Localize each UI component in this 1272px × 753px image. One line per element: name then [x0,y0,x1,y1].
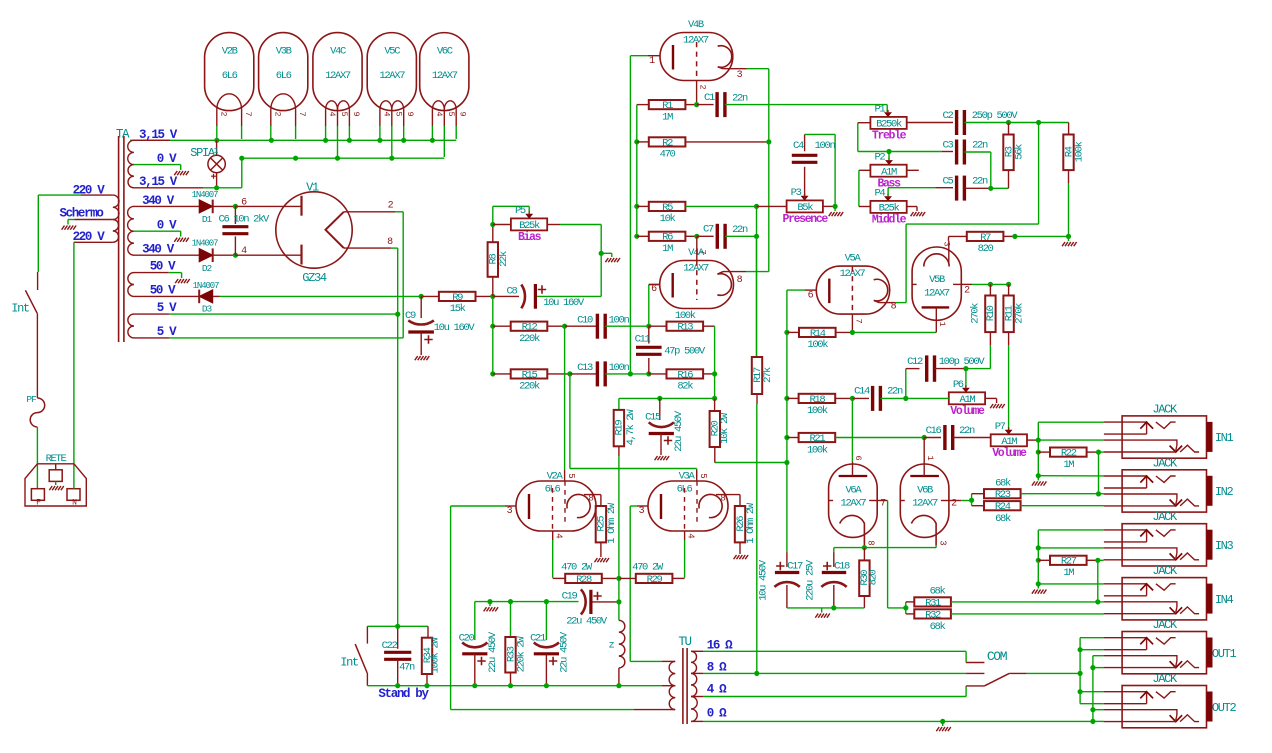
svg-text:Bias: Bias [518,231,542,244]
junction R16 R13 right [712,371,717,376]
svg-text:R23: R23 [995,489,1011,501]
wire presence node vertical [756,206,758,236]
wire TU primary top from V3A plate [630,660,662,662]
junction OUT2 tip [1090,719,1095,724]
junction C13 rail [628,371,633,376]
tube V4A grid [696,261,698,301]
svg-text:27k: 27k [762,367,774,383]
tube V4C heater [326,101,338,110]
junction V4A grid node [646,324,651,329]
svg-text:JACK: JACK [1152,618,1178,632]
svg-text:C1: C1 [704,92,715,104]
ground P3 [829,212,832,216]
svg-text:C8: C8 [507,286,518,298]
svg-text:1N4007: 1N4007 [192,239,219,249]
svg-text:8: 8 [737,275,743,286]
svg-text:R19: R19 [614,420,626,436]
tube V6A cathode [840,515,865,545]
wire V5A plate to B+ [786,290,788,332]
junction C3 C5 R3 [988,186,993,191]
svg-text:Volume: Volume [950,405,985,418]
svg-text:C20: C20 [459,633,475,645]
resistor R34 100k 2W [422,638,432,674]
wire OUT column A [1079,638,1081,704]
svg-text:0 Ω: 0 Ω [707,706,727,720]
junction heater bus1 [214,138,219,143]
junction R12 feed [490,324,495,329]
wire riser SPIA tap to bus2 [241,158,243,188]
junction C20 bus [472,683,477,688]
svg-text:P6: P6 [953,379,964,391]
wire treble to V5A cathode [1038,123,1040,225]
connector jack IN1 [1122,416,1206,458]
tube V4C envelope [313,33,362,111]
junction 0 ohm ground [940,719,945,724]
svg-text:5: 5 [339,111,349,116]
junction P2 wiper C3 [886,149,891,154]
ground Schermo [62,226,65,230]
tube V4A cathode [717,272,731,296]
tube V3B envelope [259,33,308,111]
svg-text:7: 7 [297,111,307,116]
wire 50V top tap to ground [134,272,169,274]
svg-text:1M: 1M [1063,459,1074,471]
wire P2 left to P4 left [859,169,871,171]
wire feedback to 8ohm tap [756,404,758,673]
svg-text:4: 4 [686,533,696,538]
svg-text:100n: 100n [815,140,836,152]
tube V6B cathode [911,515,936,545]
svg-text:Int: Int [340,656,358,670]
wire Schermo tap [74,219,113,221]
svg-text:100n: 100n [609,362,630,374]
svg-text:12AX7: 12AX7 [841,498,867,510]
wire TU primary bottom from V2A plate [451,709,634,711]
potentiometer P6 A1M Volume [949,392,985,404]
junction P3 C4 [833,204,838,209]
wire V5B plate pin [935,320,937,332]
svg-text:7: 7 [854,318,864,323]
svg-text:10u 450V: 10u 450V [758,559,770,601]
wire C3 line [889,151,942,153]
svg-text:68k: 68k [930,586,946,598]
junction R21 left [784,435,789,440]
svg-text:V5C: V5C [384,46,400,58]
resistor R24 68k [984,501,1021,510]
svg-text:82k: 82k [677,381,693,393]
capacitor C13 100n [570,373,598,375]
svg-text:47p 500V: 47p 500V [664,346,706,358]
wire IN1 ring feed [1038,439,1103,441]
wire IN3 tip chain down [1097,560,1099,602]
svg-text:9: 9 [458,111,468,116]
capacitor C6 10n 2kV [234,206,236,224]
svg-text:50 V: 50 V [150,260,176,274]
svg-text:220u 25V: 220u 25V [805,559,817,601]
wire V3A screen pin5 [696,470,698,481]
svg-text:340 V: 340 V [142,242,175,256]
svg-text:C12: C12 [907,356,923,368]
junction R22 left [1036,450,1041,455]
wire V3A grid pin3 [637,505,648,507]
svg-text:1N4007: 1N4007 [193,281,220,291]
svg-text:C13: C13 [577,362,593,374]
ground C9 [415,356,418,360]
svg-text:820: 820 [868,570,880,586]
svg-text:P5: P5 [515,205,526,217]
svg-text:5: 5 [446,111,456,116]
junction heater bus1 [401,138,406,143]
svg-text:C2: C2 [943,110,954,122]
svg-text:1N4007: 1N4007 [192,190,219,200]
switch selector blade [984,673,1009,686]
wire 0V tap a [134,164,181,166]
svg-text:7: 7 [243,111,253,116]
svg-text:B250k: B250k [876,119,902,131]
junction C22 bus [395,683,400,688]
junction D2 C6 [233,253,238,258]
resistor R21 100k [787,437,799,439]
resistor R3 56k [1008,123,1010,135]
svg-text:C14: C14 [854,386,870,398]
junction C2 R3 [1006,120,1011,125]
svg-text:R2: R2 [662,137,673,149]
resistor R6 1M [637,235,649,237]
svg-text:22n: 22n [887,386,903,398]
tube V1 cathode [326,212,344,248]
wire V5A pin8 cathode [879,302,895,304]
wire OUT column B [1092,656,1094,722]
wire V2A g1 pin down [552,531,554,540]
junction feedback 8ohm [754,671,759,676]
tube V3A envelope [648,481,728,531]
junction R5 left [634,204,639,209]
svg-text:5: 5 [566,473,576,478]
tube V2A grids [552,488,554,531]
junction C12 P6 wiper [963,366,968,371]
svg-text:R7: R7 [980,232,991,244]
wire 16 ohm tap [691,650,703,652]
wire 5V bottom tap [134,337,170,339]
svg-text:68k: 68k [930,621,946,633]
svg-text:IN3: IN3 [1215,539,1234,553]
svg-text:22u 450V: 22u 450V [673,410,685,452]
junction R2 V4B out [766,139,771,144]
capacitor C9 10u 160V [420,296,422,318]
junction heater bus2 [293,156,298,161]
svg-text:R5: R5 [662,202,673,214]
svg-text:B25k: B25k [879,203,900,215]
svg-text:100n: 100n [609,315,630,327]
svg-text:220k: 220k [519,333,540,345]
svg-text:270k: 270k [970,303,982,324]
svg-text:R6: R6 [662,232,673,244]
svg-text:C4: C4 [793,140,804,152]
junction OUT2 ring [1090,707,1095,712]
wire V4B pin1 plate [630,55,648,57]
svg-text:22n: 22n [972,140,988,152]
tube V2B heater [217,94,242,110]
junction R10 top [988,282,993,287]
svg-text:250p 500V: 250p 500V [972,110,1019,122]
junction R11 top [1006,282,1011,287]
svg-text:P4: P4 [874,188,885,200]
wire 340V bottom tap [134,254,200,256]
junction SPIA tap [214,185,219,190]
junction R15 C13 [567,371,572,376]
svg-text:C5: C5 [943,176,954,188]
diode D3 1N4007 bias [199,290,213,303]
ground P6 [990,404,993,408]
svg-text:8 Ω: 8 Ω [707,660,727,674]
junction OUT1 stub [1078,647,1083,652]
svg-text:340 V: 340 V [142,194,175,208]
svg-text:GZ34: GZ34 [302,271,327,285]
junction heater bus2 [335,156,340,161]
wire 3.15V top tap [134,139,171,141]
wire heater bus 3.15V-a [130,139,456,141]
ground RETE [55,481,57,485]
svg-text:JACK: JACK [1152,510,1178,524]
svg-text:R31: R31 [925,597,941,609]
svg-text:8: 8 [588,494,593,504]
capacitor C22 47n [384,651,411,654]
tube V5C heater [380,101,392,110]
svg-text:0 V: 0 V [157,152,177,166]
capacitor C15 22u 450V [659,398,661,420]
wire V4B pin3 cathode [723,68,746,70]
tube V5B plate bar [922,306,950,308]
svg-text:100p 500V: 100p 500V [939,356,986,368]
wire 0 ohm tap [691,720,703,722]
resistor R17 27k [756,236,758,357]
wire V5B grid pin2 [961,283,972,285]
svg-text:IN1: IN1 [1215,431,1234,445]
junction R14 left [784,330,789,335]
transformer TA secondary windings [128,140,134,152]
svg-text:2: 2 [272,111,282,116]
svg-text:B25k: B25k [519,220,540,232]
junction gnd rail C21 [544,599,549,604]
svg-text:50 V: 50 V [150,283,176,297]
wire TU primary center [619,685,662,687]
capacitor C5 22n [955,176,958,201]
wire P5 right to ground [547,224,560,226]
lamp SPIA1 [216,140,218,155]
resistor R31 68k [914,597,951,606]
junction R20 bottom [784,460,789,465]
wire P6 right ground [985,397,997,399]
tube V5A envelope [816,266,889,314]
svg-text:56k: 56k [1014,144,1026,160]
transformer TA primary winding [113,195,119,207]
svg-text:OUT2: OUT2 [1212,701,1237,715]
svg-text:8: 8 [387,237,393,248]
svg-text:4: 4 [554,533,564,538]
svg-text:1M: 1M [662,243,673,255]
tube V3A grids [684,488,686,531]
junction R27 right IN3 tip [1095,558,1100,563]
wire V6B plate feed [923,438,925,463]
wire V2A grid pin3 [505,505,516,507]
diode D2 1N4007 [199,249,213,262]
svg-text:TU: TU [678,635,691,649]
tube V3A cathode arc [699,494,722,517]
junction heater bus1 [347,138,352,143]
svg-text:R27: R27 [1061,556,1077,568]
tube V6B envelope [900,464,949,537]
junction ground IN4 top [1036,581,1041,586]
wire R12 R15 feed [492,296,494,374]
capacitor C14 22n [852,397,869,399]
svg-text:SPIA: SPIA [190,146,216,160]
svg-text:6L6: 6L6 [222,70,238,82]
resistor R18 100k [787,397,799,399]
wire V4A plate to R13 node [648,285,650,327]
tube V6A grid [829,500,837,502]
junction C8 ground node [599,251,604,256]
tube V5C envelope [367,33,416,111]
resistor R19 4.7k 2W [618,398,620,410]
junction P7 IN1 ring [1036,438,1041,443]
connector RETE mains plug [37,463,74,465]
svg-text:C6 10n 2kV: C6 10n 2kV [219,214,271,226]
svg-text:JACK: JACK [1152,402,1178,416]
svg-text:22n: 22n [732,93,748,105]
resistor R12 220k [493,325,511,327]
wire heater bus 3.15V-b [242,157,444,159]
junction 5V pin8 [395,312,400,317]
resistor R30 820 [863,548,865,561]
svg-text:16 Ω: 16 Ω [707,638,733,652]
resistor R15 220k [493,373,511,375]
wire P7 right [1027,439,1038,441]
svg-text:4: 4 [381,111,391,116]
diode D1 1N4007 [199,200,213,213]
svg-text:C17: C17 [787,561,803,573]
wire C2 line [907,122,953,124]
resistor R7 820 [949,235,967,237]
tube V1 plate top [235,205,301,207]
junction C21 bus [544,683,549,688]
svg-text:10u 160V: 10u 160V [434,322,476,334]
transformer TA core [118,136,120,342]
junction R33 bus [508,683,513,688]
svg-text:3: 3 [507,506,513,517]
svg-text:3: 3 [639,506,645,517]
wire 340V top tap [134,205,200,207]
svg-text:47n: 47n [399,662,415,674]
svg-text:D1: D1 [202,214,213,225]
svg-text:220 V: 220 V [73,230,106,244]
svg-text:R28: R28 [576,574,592,586]
wire standby top right [398,625,428,627]
ground 0 ohm [936,727,939,731]
tube V4B envelope [660,33,733,81]
svg-text:5 V: 5 V [157,301,177,315]
svg-text:P2: P2 [874,152,885,164]
tube V2A cathode arc [567,494,590,517]
wire V3A cathode pin8 [716,494,740,496]
svg-text:15k: 15k [450,303,466,315]
potentiometer P3 B5k Presence [787,200,823,212]
ground R7 R4 [1062,242,1065,246]
svg-text:A1M: A1M [881,166,897,178]
svg-text:V2B: V2B [222,46,238,58]
svg-text:22k: 22k [498,251,510,267]
ground 0V b [174,238,177,242]
resistor R11 270k [1008,284,1010,295]
wire V3A screen feed [569,374,571,469]
tube V4B cathode [718,46,732,69]
svg-text:V5A: V5A [845,253,862,265]
wire B+ rail [397,314,399,626]
junction screen node [616,576,621,581]
svg-text:B5k: B5k [797,202,813,214]
svg-text:3,15 V: 3,15 V [139,128,178,142]
connector jack OUT2 [1122,686,1206,728]
svg-text:R12: R12 [522,322,538,334]
svg-text:3: 3 [937,540,947,545]
svg-text:9: 9 [351,111,361,116]
svg-text:C15: C15 [645,412,661,424]
junction R6 left [634,234,639,239]
wire input chain 1 [1037,440,1039,476]
wire 50V bottom tap [134,295,200,297]
junction D3 R9 C9 [419,294,424,299]
tube V6B plate [910,475,939,477]
potentiometer P7 A1M Volume [991,434,1027,446]
svg-text:1 Ohm 2W: 1 Ohm 2W [745,502,757,544]
resistor R25 1 Ohm 2W [600,495,602,506]
svg-text:22n: 22n [972,176,988,188]
svg-text:22u 450V: 22u 450V [559,631,571,673]
wire R19 top rail [619,397,715,399]
ground R25 [595,558,598,562]
resistor R16 82k [649,373,667,375]
tube V2B envelope [205,33,254,111]
potentiometer P4 B25k Middle [870,201,906,213]
wire 4 ohm tap [691,696,703,698]
svg-text:P1: P1 [874,104,885,116]
junction ground IN2 top [1036,473,1041,478]
wire V2A cathode pin8 [584,494,601,496]
potentiometer P1 B250k Treble [870,117,906,129]
svg-text:12AX7: 12AX7 [432,70,458,82]
ground filter [821,608,823,613]
resistor R22 1M [1038,451,1050,453]
junction R7 right [1012,234,1017,239]
connector jack OUT1 [1122,632,1206,674]
wire V1 pin2 [344,211,395,213]
svg-text:470 2W: 470 2W [632,562,664,574]
svg-text:R29: R29 [647,574,663,586]
svg-text:C7: C7 [703,224,714,236]
junction IN4 ring R31 [1095,599,1100,604]
svg-text:820: 820 [978,243,994,255]
svg-text:Middle: Middle [872,214,907,227]
svg-text:A1M: A1M [1001,436,1017,448]
junction IN3 ring [1036,545,1041,550]
svg-text:22n: 22n [959,425,975,437]
svg-text:Treble: Treble [872,130,907,143]
junction C18 rail [831,605,836,610]
tube V4B grid [696,42,698,81]
capacitor C21 22u 450V [545,602,547,640]
svg-text:100k 2W: 100k 2W [430,637,442,674]
capacitor C10 100n [565,325,598,327]
svg-text:3: 3 [737,70,743,81]
